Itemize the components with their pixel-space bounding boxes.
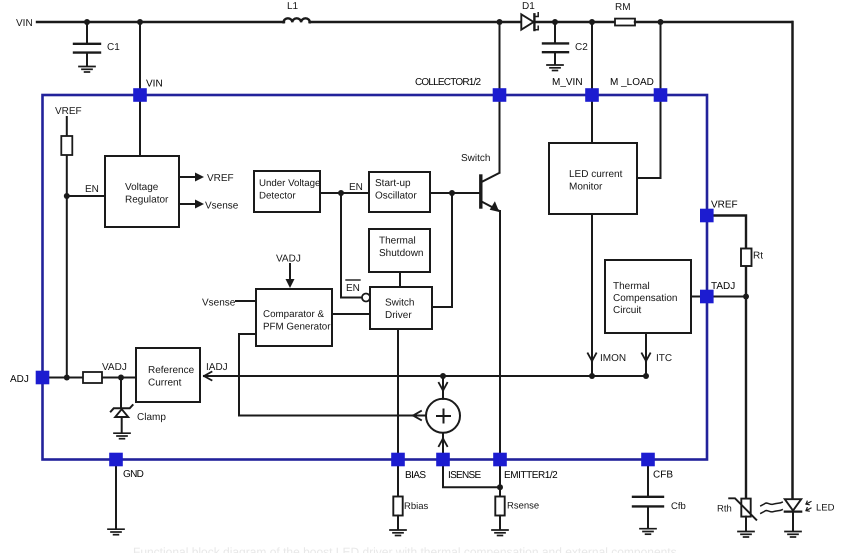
junction on ADJ row at x=67 [64,375,70,381]
svg-text:IADJ: IADJ [206,362,228,373]
arrow up from ISENSE into summing circle [439,433,447,460]
svg-text:Monitor: Monitor [569,182,603,193]
arrow IMON direction [588,353,596,361]
wire BIAS pin to Rbias [397,463,399,497]
wire Start-up Oscillator to transistor base [430,192,480,194]
wire IADJ line [204,375,646,377]
resistor Rsense [495,497,539,516]
svg-text:EN: EN [346,283,360,294]
svg-text:PFM Generator: PFM Generator [263,322,331,333]
IC boundary box [43,95,708,460]
svg-text:VIN: VIN [16,18,33,29]
svg-text:Reference: Reference [148,365,195,376]
wire TADJ pin to Rt branch [713,296,746,298]
svg-text:Switch: Switch [385,298,414,309]
svg-text:C2: C2 [575,42,588,53]
wire ISENSE pin to Rsense top node [443,463,500,487]
block Reference Current [136,348,200,402]
svg-text:VIN: VIN [146,79,163,90]
svg-text:VREF: VREF [711,200,738,211]
svg-text:LED: LED [816,503,835,514]
node ENbar label with overline [346,280,360,294]
pin GND [109,453,123,467]
wire Switch Driver to BIAS pin [397,329,399,460]
svg-text:L1: L1 [287,1,299,12]
wire TCC to TADJ pin [691,296,700,298]
ground below GND pin [108,529,124,535]
svg-text:Current: Current [148,378,182,389]
ground below C2 [547,65,563,71]
svg-text:Rsense: Rsense [507,501,539,512]
capacitor C1 [74,23,120,66]
resistor Rbias [393,497,428,516]
svg-text:Functional block diagram of th: Functional block diagram of the boost LE… [133,545,677,553]
wire EN into Voltage Regulator [67,195,105,197]
svg-text:Thermal: Thermal [613,281,650,292]
pin VIN [133,88,147,102]
wire comparator to Switch Driver [332,313,370,315]
svg-text:Vsense: Vsense [205,201,239,212]
wire Thermal Shutdown to Switch Driver [399,272,401,287]
block Comparator & PFM Generator [256,289,332,346]
block Switch Driver [370,287,432,329]
svg-text:TADJ: TADJ [711,281,735,292]
ground below Rsense [492,530,508,536]
svg-text:Switch: Switch [461,153,490,164]
pin CFB [641,453,655,467]
junction dot above summing circle [440,373,446,379]
wire emitter drop to EMITTER pin [499,211,501,460]
svg-text:Comparator &: Comparator & [263,309,324,320]
wire VREF pull-up net (x=67 vertical) [66,117,68,378]
svg-text:Cfb: Cfb [671,501,686,512]
svg-text:Shutdown: Shutdown [379,248,423,259]
svg-text:Driver: Driver [385,310,412,321]
ground below Rbias [390,530,406,536]
transistor Q1 Switch [461,153,500,212]
block Under Voltage Detector [254,171,320,212]
wire ITC (TCC to IADJ line) [645,333,647,376]
arrow Vsense output of Voltage Regulator [179,200,239,212]
ground below C1 [79,67,95,73]
pin M_LOAD [654,88,668,102]
wire feedback from summing circle to comparator [239,334,427,416]
summing junction circle [426,399,460,433]
wire Rbias to ground [397,516,399,530]
wire EN net (UVD to Start-up Oscillator) [320,192,369,194]
inductor L1 [284,1,310,22]
svg-text:IMON: IMON [600,353,626,364]
op block U1 Voltage Regulator [105,156,179,227]
svg-text:VADJ: VADJ [276,254,301,265]
wire COLLECTOR drop (rail to transistor collector) [499,22,501,173]
block LED current Monitor [549,143,637,214]
junction ITC on IADJ line [643,373,649,379]
junction VADJ node [118,375,124,381]
svg-text:RM: RM [615,2,631,13]
wire top rail segment 2 (L1 to D1) [310,21,522,23]
wire right-edge drop to LED [791,22,794,499]
diode D1 [521,1,538,30]
svg-text:Detector: Detector [259,191,296,202]
svg-text:LED current: LED current [569,169,623,180]
svg-text:CFB: CFB [653,470,673,481]
svg-text:D1: D1 [522,1,535,12]
svg-text:M_VIN: M_VIN [552,77,583,88]
capacitor C2 [543,23,588,65]
svg-text:Oscillator: Oscillator [375,191,417,202]
wire IMON (LED current Monitor to IADJ line) [591,214,593,376]
svg-text:M _LOAD: M _LOAD [610,77,654,88]
svg-text:COLLECTOR1/2: COLLECTOR1/2 [415,77,481,88]
thermal coupling waves [761,502,782,513]
PART2 [108,216,835,538]
pin TADJ [700,290,714,304]
pin COLLECTOR1/2 [493,88,507,102]
arrow open head on feedback near circle [413,411,421,420]
capacitor Cfb [633,463,686,528]
wire top rail segment 3 (D1 to RM) [535,21,616,23]
svg-text:VREF: VREF [207,173,234,184]
pin M_VIN [585,88,599,102]
arrow ITC direction [642,353,650,361]
svg-text:VREF: VREF [55,106,82,117]
svg-text:Voltage: Voltage [125,182,159,193]
wire Rsense to ground [499,516,501,530]
pin BIAS [391,453,405,467]
svg-text:EMITTER1/2: EMITTER1/2 [504,470,558,481]
block Thermal Shutdown [369,229,430,272]
wire M_VIN drop (rail to LED current Monitor) [591,22,593,143]
junction base node [449,190,455,196]
junction dots on top rail [84,19,664,25]
wire GND pin to ground [115,463,117,529]
junction IMON on IADJ line [589,373,595,379]
resistor on VREF net [61,136,72,155]
pin VREF [700,209,714,223]
svg-text:Regulator: Regulator [125,195,169,206]
ground below Rth [738,532,754,538]
svg-text:Rbias: Rbias [404,501,429,512]
ground below Clamp [114,433,130,439]
wire ADJ row (pin to Reference Current) [45,377,136,379]
wire Rth to ground [745,517,747,531]
resistor RM [615,2,635,26]
pin EMITTER1/2 [493,453,507,467]
wire Vsense stub [236,300,256,302]
wire M_LOAD drop and bend to LED current Monitor right side [637,22,661,178]
resistor Rt [741,249,763,267]
svg-text:C1: C1 [107,42,120,53]
svg-text:ADJ: ADJ [10,374,29,385]
block Thermal Compensation Circuit [605,260,691,333]
ground below LED [785,532,801,538]
inverter bubble on Switch Driver input [362,294,370,302]
svg-text:Vsense: Vsense [202,298,236,309]
thermistor Rth [717,498,756,520]
wire top rail segment 1 (VIN to L1) [37,21,284,23]
arrow open head IADJ into Reference Current [204,372,212,380]
svg-text:Circuit: Circuit [613,305,642,316]
junction Rsense sense node [497,484,503,490]
svg-text:Rth: Rth [717,504,732,515]
svg-text:GND: GND [123,469,144,480]
svg-text:Compensation: Compensation [613,293,677,304]
zener diode Clamp [111,378,167,433]
wire LED to ground [792,512,794,531]
svg-text:EN: EN [349,182,363,193]
svg-text:Clamp: Clamp [137,412,166,423]
resistor on ADJ row [83,372,102,383]
svg-text:BIAS: BIAS [405,470,426,481]
wire EN down to Switch Driver bubble [341,193,362,298]
wire VREF pin to Rt branch [713,216,746,499]
arrow VADJ into comparator [286,264,295,288]
svg-text:Rt: Rt [753,251,763,262]
arrow down into summing circle [439,376,447,399]
wire VIN pin drop (rail to Voltage Regulator) [139,22,141,156]
svg-text:Start-up: Start-up [375,178,411,189]
junction TADJ-Rt node [743,294,749,300]
pin ISENSE [436,453,450,467]
svg-text:VADJ: VADJ [102,362,127,373]
arrow VREF output of Voltage Regulator [179,173,234,185]
svg-text:Under Voltage: Under Voltage [259,178,320,189]
block Start-up Oscillator [369,172,430,212]
junction EN node [64,193,70,199]
LED D2 [785,499,835,513]
svg-text:EN: EN [85,184,99,195]
wire EMITTER pin down to Rsense [499,463,501,497]
ground below Cfb [640,529,656,535]
wire Switch Driver output up to base node [432,193,452,307]
svg-text:ISENSE: ISENSE [448,470,482,481]
wire top rail segment 4 (RM to top-right corner) [635,21,792,23]
svg-text:ITC: ITC [656,353,672,364]
junction EN mid node [338,190,344,196]
pin ADJ [36,371,50,385]
svg-text:Thermal: Thermal [379,236,416,247]
